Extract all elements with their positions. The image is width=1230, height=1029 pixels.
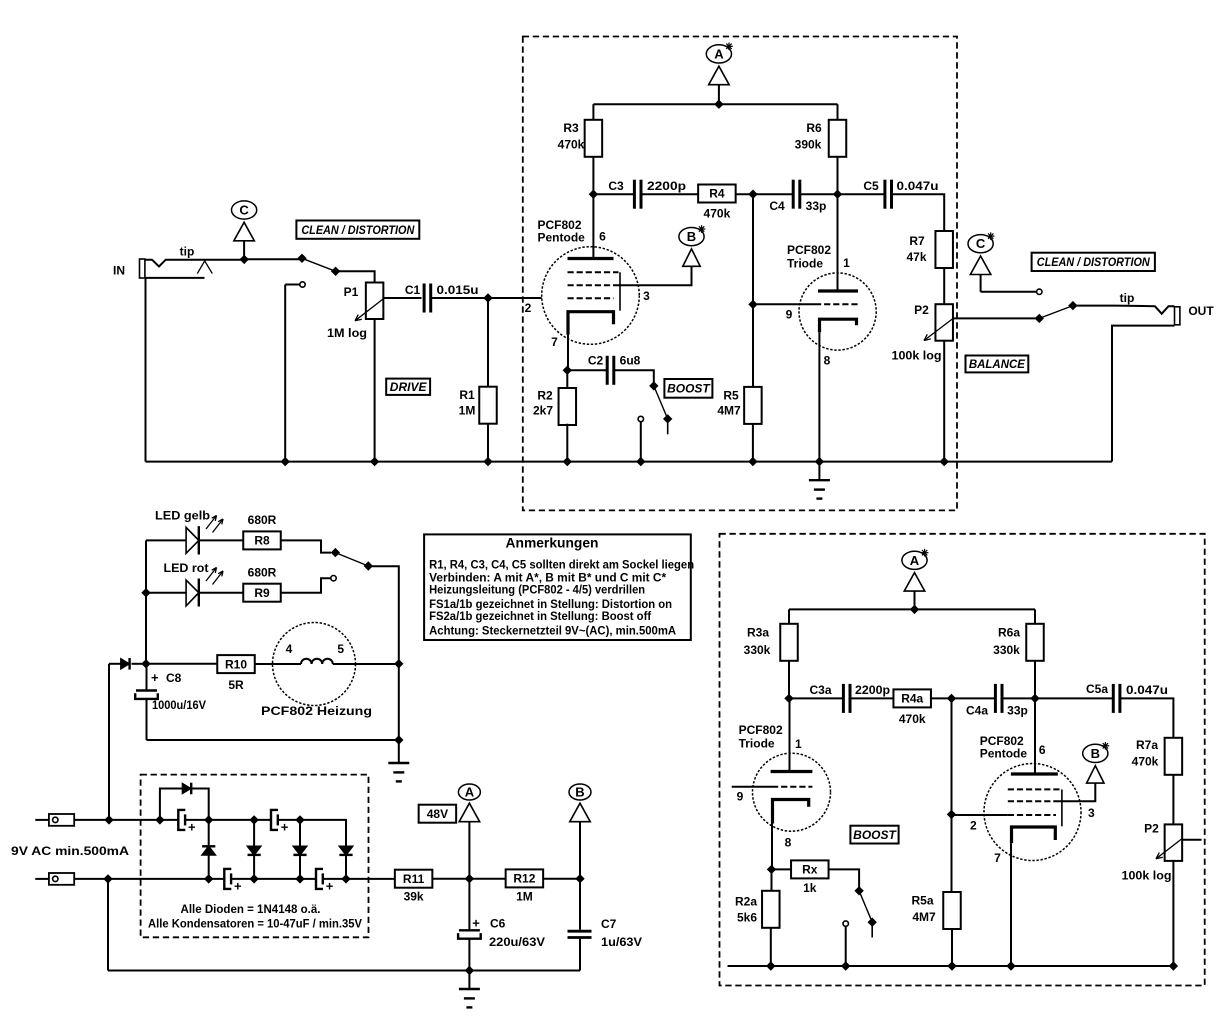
svg-text:PCF802 Heizung: PCF802 Heizung [261,704,372,718]
svg-text:LED rot: LED rot [164,561,209,575]
svg-text:5: 5 [337,642,344,656]
svg-text:OUT: OUT [1188,304,1214,318]
svg-text:PCF802: PCF802 [739,723,783,737]
svg-text:A: A [465,785,475,800]
svg-text:5R: 5R [228,678,244,692]
svg-text:FS2a/1b gezeichnet in Stellung: FS2a/1b gezeichnet in Stellung: Boost of… [429,609,652,623]
svg-text:3: 3 [643,289,650,303]
svg-text:1u/63V: 1u/63V [601,935,642,949]
svg-text:+: + [472,916,480,931]
svg-text:9V AC min.500mA: 9V AC min.500mA [11,844,129,858]
svg-text:B: B [1091,746,1100,761]
svg-text:4M7: 4M7 [912,910,936,924]
svg-text:A: A [714,46,724,61]
svg-text:Anmerkungen: Anmerkungen [506,535,599,551]
svg-text:R1, R4, C3, C4, C5 sollten dir: R1, R4, C3, C4, C5 sollten direkt am Soc… [429,558,694,572]
svg-text:5k6: 5k6 [737,911,757,925]
svg-text:Heizungsleitung (PCF802 - 4/5): Heizungsleitung (PCF802 - 4/5) verdrille… [429,583,645,597]
svg-text:R5: R5 [723,389,739,403]
svg-text:R11: R11 [403,872,425,886]
svg-text:2: 2 [970,819,977,833]
svg-text:220u/63V: 220u/63V [489,935,545,949]
svg-text:A: A [910,553,920,568]
svg-text:1: 1 [843,256,850,270]
svg-text:4: 4 [286,642,293,656]
svg-text:tip: tip [1120,291,1135,305]
svg-text:B: B [687,229,696,244]
svg-text:+: + [234,878,242,893]
svg-text:0.015u: 0.015u [437,283,479,297]
svg-text:C5a: C5a [1086,682,1108,696]
svg-text:7: 7 [551,335,558,349]
svg-text:C: C [239,203,249,218]
svg-text:7: 7 [994,851,1001,865]
svg-text:IN: IN [113,264,125,278]
svg-text:C8: C8 [166,671,182,685]
svg-text:6u8: 6u8 [620,354,641,368]
svg-text:R4: R4 [709,187,725,201]
svg-text:R7a: R7a [1136,738,1158,752]
svg-text:+: + [326,878,334,893]
svg-text:1M log: 1M log [327,326,367,340]
svg-text:3: 3 [1088,806,1095,820]
svg-text:100k log: 100k log [892,349,942,363]
svg-text:680R: 680R [248,513,277,527]
svg-text:Pentode: Pentode [980,747,1028,761]
svg-text:C6: C6 [490,917,506,931]
svg-text:R3: R3 [563,121,579,135]
svg-text:1M: 1M [516,890,533,904]
svg-text:1: 1 [795,737,802,751]
svg-text:2200p: 2200p [647,179,686,193]
svg-text:680R: 680R [248,566,277,580]
svg-text:4M7: 4M7 [717,404,741,418]
svg-text:BOOST: BOOST [667,382,711,396]
svg-text:0.047u: 0.047u [897,179,939,193]
svg-text:470k: 470k [704,207,731,221]
svg-text:LED gelb: LED gelb [155,509,210,523]
svg-text:R3a: R3a [747,626,769,640]
svg-text:1k: 1k [803,881,817,895]
svg-text:CLEAN / DISTORTION: CLEAN / DISTORTION [301,223,414,237]
svg-text:Triode: Triode [787,257,823,271]
svg-text:BOOST: BOOST [853,828,897,842]
svg-text:Rx: Rx [802,863,818,877]
svg-text:B: B [575,785,584,800]
svg-text:Triode: Triode [739,737,775,751]
svg-text:C4a: C4a [966,704,988,718]
svg-text:C4: C4 [769,199,785,213]
svg-text:2200p: 2200p [855,683,890,697]
svg-text:330k: 330k [744,643,771,657]
svg-text:0.047u: 0.047u [1126,683,1168,697]
svg-text:R7: R7 [909,234,925,248]
svg-text:47k: 47k [906,250,926,264]
svg-text:C7: C7 [601,917,617,931]
svg-text:33p: 33p [806,199,827,213]
svg-text:R6a: R6a [998,626,1020,640]
svg-text:8: 8 [785,836,792,850]
svg-text:6: 6 [599,230,606,244]
svg-text:9: 9 [737,790,744,804]
svg-text:PCF802: PCF802 [787,243,831,257]
svg-text:1000u/16V: 1000u/16V [152,698,206,712]
svg-text:1M: 1M [459,404,476,418]
svg-text:BALANCE: BALANCE [969,357,1026,371]
svg-text:P1: P1 [344,285,359,299]
svg-text:2k7: 2k7 [533,404,553,418]
svg-text:+: + [188,819,196,834]
svg-text:330k: 330k [993,643,1020,657]
svg-text:P2: P2 [1144,822,1159,836]
svg-text:R4a: R4a [901,692,923,706]
svg-text:C: C [976,236,986,251]
svg-text:+: + [281,819,289,834]
svg-text:tip: tip [180,245,195,259]
svg-text:33p: 33p [1007,704,1028,718]
svg-text:470k: 470k [558,138,585,152]
svg-text:100k log: 100k log [1122,869,1172,883]
svg-text:R1: R1 [459,388,475,402]
svg-text:8: 8 [824,354,831,368]
svg-text:C3a: C3a [809,683,831,697]
svg-text:C5: C5 [863,179,879,193]
svg-text:R5a: R5a [911,894,933,908]
svg-text:39k: 39k [404,890,424,904]
svg-text:C3: C3 [608,179,624,193]
svg-text:R2a: R2a [735,895,757,909]
svg-text:9: 9 [786,308,793,322]
svg-text:R10: R10 [225,657,247,671]
svg-text:390k: 390k [795,138,822,152]
svg-text:Alle Dioden = 1N4148 o.ä.: Alle Dioden = 1N4148 o.ä. [181,902,321,916]
svg-text:Alle Kondensatoren = 10-47uF /: Alle Kondensatoren = 10-47uF / min.35V [148,917,362,931]
svg-text:C2: C2 [588,354,604,368]
svg-text:CLEAN / DISTORTION: CLEAN / DISTORTION [1037,255,1150,269]
svg-text:R6: R6 [806,121,822,135]
svg-text:+: + [151,670,159,685]
svg-text:R9: R9 [254,586,270,600]
svg-text:C1: C1 [405,283,421,297]
svg-text:R8: R8 [254,534,270,548]
svg-text:470k: 470k [1132,755,1159,769]
svg-text:P2: P2 [914,303,929,317]
svg-text:DRIVE: DRIVE [390,380,428,394]
svg-text:R12: R12 [513,872,535,886]
svg-text:6: 6 [1039,743,1046,757]
svg-text:48V: 48V [427,807,448,821]
svg-text:R2: R2 [537,389,553,403]
svg-text:Achtung: Steckernetzteil 9V~(A: Achtung: Steckernetzteil 9V~(AC), min.50… [429,624,676,638]
svg-text:Pentode: Pentode [538,231,586,245]
svg-text:2: 2 [525,301,532,315]
svg-text:470k: 470k [899,712,926,726]
